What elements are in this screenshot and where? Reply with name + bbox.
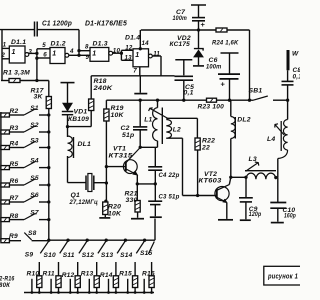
svg-text:DL1: DL1 <box>78 141 92 148</box>
svg-text:330: 330 <box>126 197 138 204</box>
svg-text:C4 22p: C4 22p <box>159 172 180 179</box>
svg-text:C2: C2 <box>121 125 130 132</box>
svg-text:DL2: DL2 <box>237 116 251 123</box>
svg-text:S6: S6 <box>30 192 39 199</box>
svg-text:S7: S7 <box>30 210 39 217</box>
svg-text:6: 6 <box>43 52 47 59</box>
svg-text:680К: 680К <box>0 282 11 289</box>
svg-text:L4: L4 <box>267 136 275 143</box>
svg-text:1: 1 <box>12 49 16 56</box>
svg-text:S3: S3 <box>30 138 39 145</box>
svg-text:100m: 100m <box>206 63 222 70</box>
svg-text:L1: L1 <box>144 116 152 123</box>
svg-text:100m: 100m <box>173 15 188 22</box>
svg-text:КТ315: КТ315 <box>109 153 133 160</box>
svg-text:51p: 51p <box>122 132 134 139</box>
svg-text:R5: R5 <box>10 161 19 168</box>
svg-text:R4: R4 <box>10 141 19 148</box>
svg-text:S13: S13 <box>101 252 114 259</box>
svg-text:R12: R12 <box>62 272 75 279</box>
svg-text:КС175: КС175 <box>170 41 191 48</box>
svg-text:S5: S5 <box>30 175 39 182</box>
svg-text:7: 7 <box>133 67 137 74</box>
svg-text:240K: 240K <box>92 85 113 92</box>
svg-text:C3 51p: C3 51p <box>159 193 180 200</box>
svg-text:R10: R10 <box>27 270 40 277</box>
svg-text:2: 2 <box>0 52 5 59</box>
svg-text:R11: R11 <box>43 271 55 278</box>
svg-text:R8: R8 <box>10 213 19 220</box>
svg-text:SB1: SB1 <box>249 87 263 94</box>
svg-text:R19: R19 <box>111 105 124 112</box>
svg-text:S2: S2 <box>30 122 39 129</box>
svg-text:L2: L2 <box>173 127 181 134</box>
svg-text:S14: S14 <box>120 252 133 259</box>
svg-text:10K: 10K <box>111 112 125 119</box>
svg-text:120p: 120p <box>249 211 261 218</box>
svg-text:0,1: 0,1 <box>293 73 301 80</box>
svg-text:W: W <box>292 50 299 57</box>
svg-text:рисунок 1: рисунок 1 <box>267 273 298 280</box>
svg-text:12: 12 <box>125 44 133 51</box>
svg-text:D1.2: D1.2 <box>51 41 66 48</box>
svg-text:1: 1 <box>52 51 56 58</box>
svg-text:8: 8 <box>85 44 89 51</box>
svg-text:R14: R14 <box>100 272 113 279</box>
svg-text:S10: S10 <box>44 252 57 259</box>
svg-text:3: 3 <box>28 48 32 55</box>
svg-text:R20: R20 <box>108 203 121 210</box>
svg-text:L3: L3 <box>249 156 257 163</box>
svg-text:1: 1 <box>135 52 139 59</box>
svg-text:S4: S4 <box>30 158 39 165</box>
svg-text:14: 14 <box>142 40 150 47</box>
svg-text:R22: R22 <box>202 137 215 144</box>
svg-text:13: 13 <box>125 55 133 62</box>
svg-text:1: 1 <box>3 42 7 49</box>
svg-text:R6: R6 <box>10 178 19 185</box>
svg-text:D1.3: D1.3 <box>93 41 108 48</box>
svg-text:11: 11 <box>153 50 160 57</box>
svg-text:27,12МГц: 27,12МГц <box>69 199 98 206</box>
svg-text:22: 22 <box>201 145 210 152</box>
svg-text:S9: S9 <box>25 251 34 258</box>
svg-text:VD1: VD1 <box>74 109 88 116</box>
svg-text:R16: R16 <box>142 270 155 277</box>
svg-text:R1 3,3M: R1 3,3M <box>3 69 30 76</box>
svg-text:+: + <box>201 20 206 29</box>
svg-text:R7: R7 <box>10 195 19 202</box>
svg-text:10: 10 <box>113 47 121 54</box>
svg-text:D1-К176ЛЕ5: D1-К176ЛЕ5 <box>85 19 128 28</box>
svg-text:R2: R2 <box>10 108 19 115</box>
svg-text:C1 1200p: C1 1200p <box>42 19 72 28</box>
svg-text:R15: R15 <box>119 271 132 278</box>
svg-text:10K: 10K <box>108 210 122 217</box>
svg-text:4: 4 <box>69 48 74 55</box>
svg-text:0,1: 0,1 <box>184 90 194 97</box>
svg-text:9: 9 <box>86 54 90 61</box>
svg-text:D1.4: D1.4 <box>125 34 140 41</box>
svg-text:S1: S1 <box>30 105 39 112</box>
svg-text:R3: R3 <box>10 125 19 132</box>
svg-text:D1.1: D1.1 <box>11 39 26 46</box>
svg-text:S8: S8 <box>28 230 37 237</box>
svg-text:R13: R13 <box>81 271 94 278</box>
svg-text:3K: 3K <box>34 94 44 101</box>
svg-text:S15: S15 <box>140 250 153 257</box>
svg-text:R9: R9 <box>9 233 18 240</box>
svg-text:S11: S11 <box>63 252 75 259</box>
svg-text:+: + <box>221 80 226 89</box>
svg-text:S12: S12 <box>82 252 95 259</box>
svg-text:R24 1,6K: R24 1,6K <box>212 40 239 47</box>
svg-text:160p: 160p <box>284 212 296 219</box>
svg-text:КВ109: КВ109 <box>68 116 89 123</box>
svg-text:R23 100: R23 100 <box>198 104 225 111</box>
svg-text:5: 5 <box>42 42 46 49</box>
svg-text:1: 1 <box>92 51 96 58</box>
svg-text:КТ603: КТ603 <box>199 178 222 185</box>
